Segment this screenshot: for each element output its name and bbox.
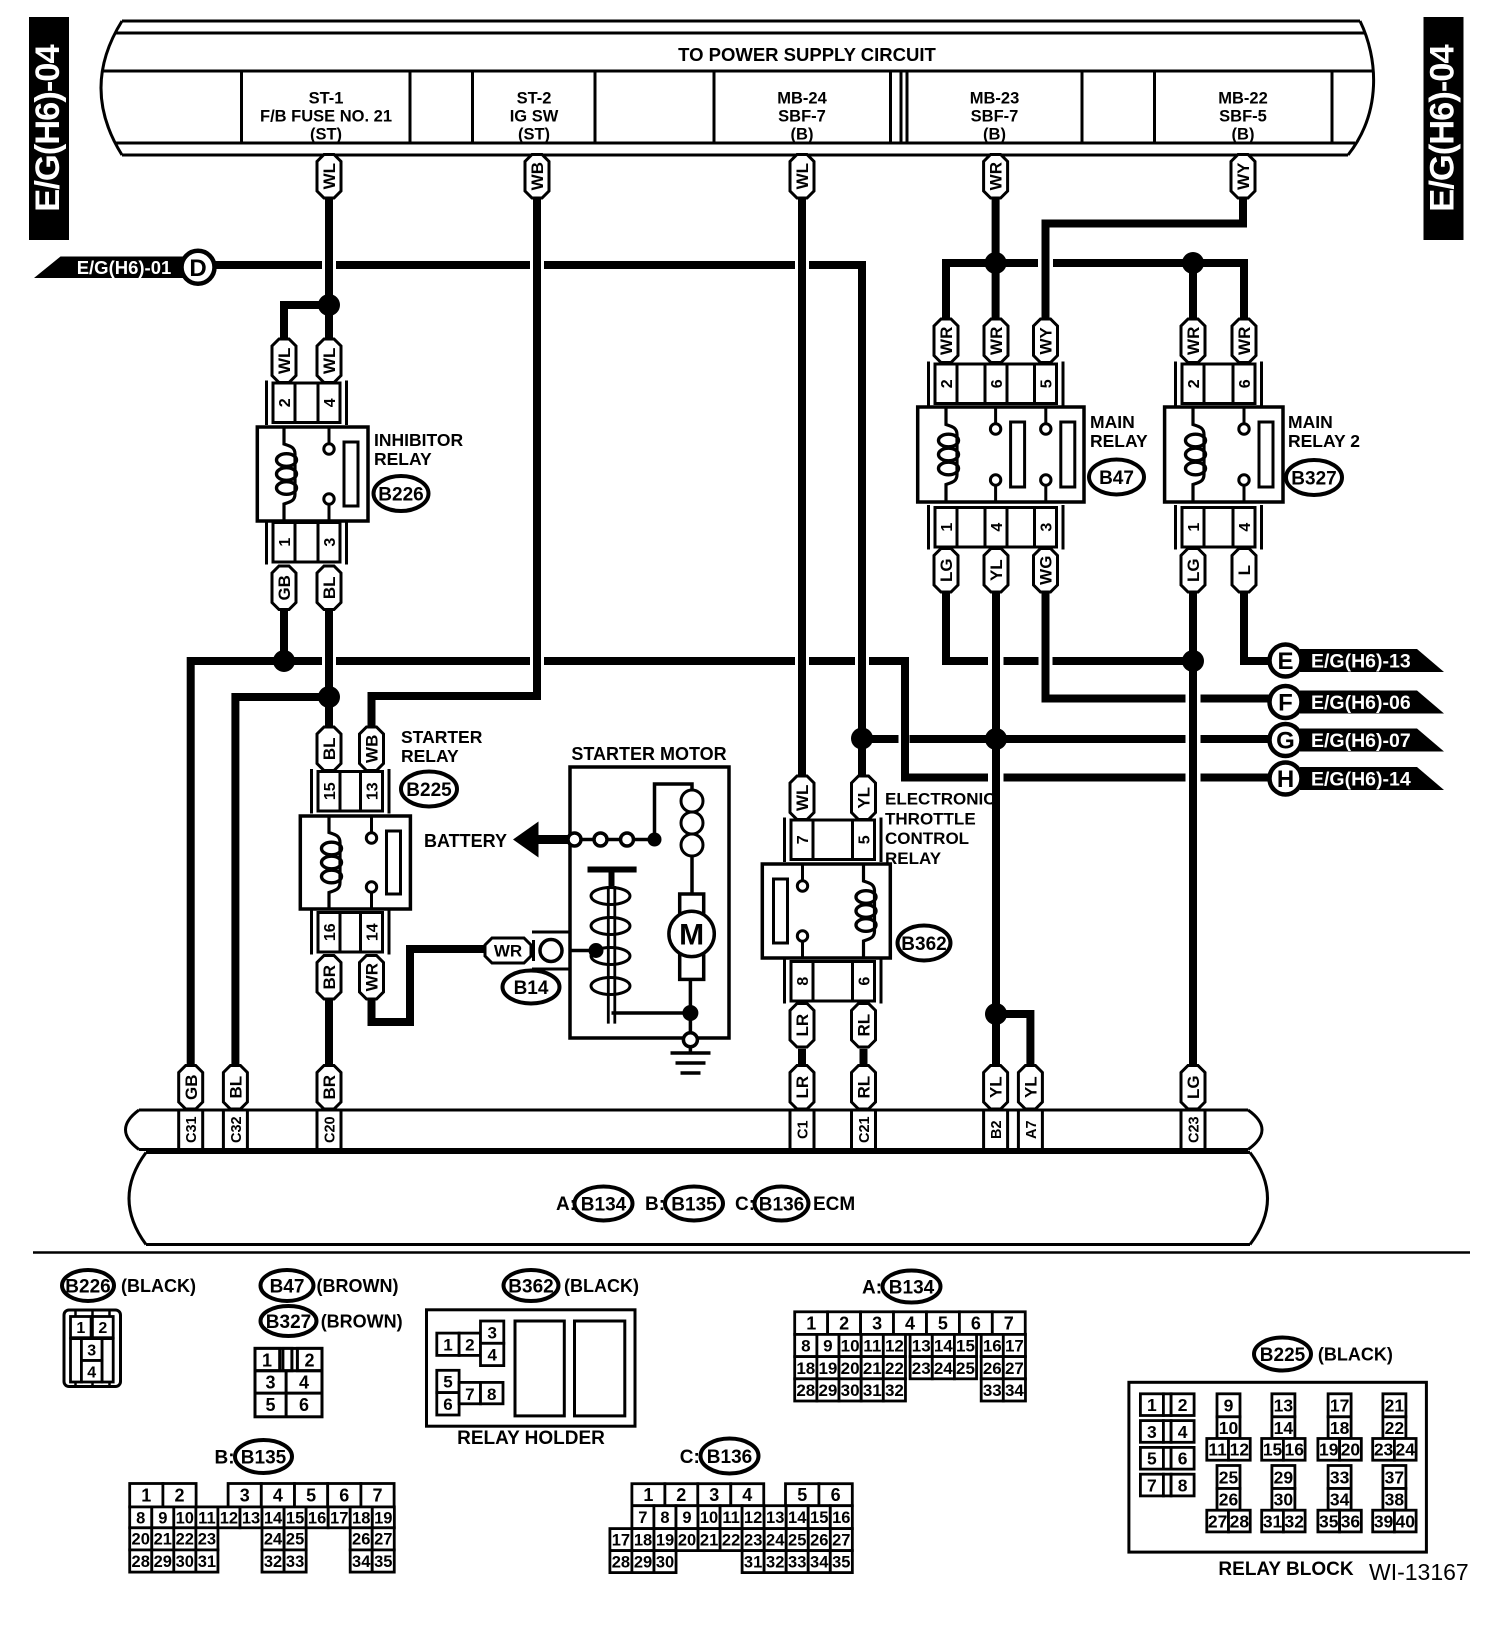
- B135 row 3 pins 20-23: [130, 1528, 218, 1550]
- svg-text:19: 19: [656, 1532, 674, 1550]
- svg-text:4: 4: [1178, 1422, 1188, 1442]
- svg-text:31: 31: [863, 1381, 882, 1400]
- svg-text:D: D: [189, 255, 206, 282]
- svg-text:MB-24: MB-24: [777, 90, 827, 108]
- wire LG net segment: [1053, 657, 1194, 665]
- svg-text:MB-22: MB-22: [1218, 90, 1268, 108]
- svg-text:SBF-7: SBF-7: [971, 108, 1019, 126]
- B134 row 2 pins 16-17: [981, 1334, 1025, 1356]
- wire YL to ETC relay pin 5: [858, 742, 866, 776]
- wire YL from main relay pin 4 to ECM B2: [992, 592, 1000, 1066]
- relay ref B225: [401, 772, 457, 807]
- svg-text:31: 31: [744, 1554, 762, 1572]
- svg-text:1: 1: [1186, 523, 1203, 532]
- B135 row 3 pins 26-27: [350, 1528, 394, 1550]
- svg-text:1: 1: [76, 1320, 85, 1337]
- svg-text:1: 1: [939, 523, 956, 532]
- svg-text:B134: B134: [581, 1194, 627, 1215]
- svg-text:WY: WY: [1037, 326, 1056, 354]
- wire label YL at ETC relay pin 5: [852, 776, 876, 820]
- connector view ref B226: [62, 1270, 114, 1301]
- svg-text:B362: B362: [508, 1276, 553, 1297]
- svg-text:C21: C21: [857, 1116, 873, 1143]
- svg-text:17: 17: [1005, 1337, 1024, 1356]
- relay ref B327: [1286, 460, 1342, 495]
- svg-text:2: 2: [98, 1320, 107, 1337]
- wire D net from flag: [215, 261, 323, 269]
- wire L from main relay 2 pin 4 to flag E: [1244, 592, 1269, 661]
- wire label BL at inhibitor pin 3: [317, 566, 341, 610]
- B225 pins 5-6: [1140, 1447, 1194, 1469]
- svg-text:B:: B:: [215, 1448, 235, 1469]
- svg-text:L: L: [1235, 565, 1254, 575]
- junction D net / G net: [851, 728, 873, 750]
- svg-text:21: 21: [1385, 1396, 1405, 1416]
- svg-text:15: 15: [810, 1509, 828, 1527]
- svg-text:31: 31: [1263, 1511, 1283, 1531]
- svg-text:(BLACK): (BLACK): [121, 1276, 196, 1296]
- svg-text:6: 6: [299, 1395, 309, 1415]
- svg-text:3: 3: [322, 538, 339, 547]
- svg-text:2: 2: [1178, 1395, 1188, 1415]
- B136 row 1 pins 5-6: [786, 1484, 853, 1506]
- svg-text:5: 5: [938, 1314, 948, 1334]
- svg-text:14: 14: [365, 923, 382, 941]
- svg-text:BL: BL: [320, 576, 339, 599]
- svg-text:17: 17: [1330, 1396, 1349, 1416]
- wire label WY at main relay pin 5: [1034, 319, 1058, 363]
- inhibitor relay B226 body: [257, 427, 368, 521]
- svg-text:20: 20: [1341, 1440, 1361, 1460]
- svg-text:BL: BL: [227, 1076, 246, 1099]
- svg-text:3: 3: [1039, 523, 1056, 532]
- svg-text:16: 16: [832, 1509, 850, 1527]
- B135 row 1 pins 1-2: [130, 1484, 196, 1507]
- svg-text:F: F: [1278, 690, 1293, 717]
- pin 2: [935, 364, 957, 404]
- svg-text:16: 16: [1285, 1440, 1305, 1460]
- ECM pin C1: [790, 1110, 814, 1150]
- svg-text:(B): (B): [983, 126, 1006, 144]
- wire D net segment: [336, 261, 530, 269]
- wire BR from starter relay pin 16 to ECM C20: [325, 999, 333, 1066]
- svg-text:18: 18: [352, 1509, 370, 1527]
- svg-text:6: 6: [339, 1486, 349, 1506]
- svg-text:16: 16: [308, 1509, 326, 1527]
- svg-text:(B): (B): [1232, 126, 1255, 144]
- svg-text:29: 29: [818, 1381, 837, 1400]
- pin 13: [361, 772, 383, 812]
- svg-text:28: 28: [1230, 1511, 1250, 1531]
- svg-text:WR: WR: [1184, 327, 1203, 355]
- svg-text:12: 12: [220, 1509, 238, 1527]
- junction WR net at MB-23 drop: [985, 252, 1007, 274]
- relay ref B226: [374, 476, 429, 511]
- svg-text:E/G(H6)-04: E/G(H6)-04: [29, 45, 67, 212]
- main relay 2 bottom pin row: [1176, 505, 1262, 550]
- wire D net segment: [544, 261, 795, 269]
- connector view ref B362: [504, 1270, 559, 1301]
- ECM pin C20: [317, 1110, 341, 1150]
- wire WL branch to inhibitor relay pin 2: [284, 305, 327, 339]
- svg-text:5: 5: [265, 1395, 275, 1415]
- svg-text:29: 29: [154, 1553, 172, 1571]
- wire label WR at starter relay pin 14: [360, 956, 384, 1000]
- svg-text:4: 4: [487, 1346, 497, 1365]
- svg-text:22: 22: [176, 1531, 194, 1549]
- svg-text:(BLACK): (BLACK): [564, 1276, 639, 1296]
- svg-text:19: 19: [1319, 1440, 1339, 1460]
- B135 row 1 pins 6-7: [328, 1484, 394, 1507]
- bus cell separators: [242, 71, 1333, 143]
- svg-text:15: 15: [286, 1509, 304, 1527]
- pin 16: [318, 913, 340, 953]
- svg-text:13: 13: [1274, 1396, 1294, 1416]
- svg-text:WL: WL: [275, 348, 294, 374]
- svg-text:6: 6: [1178, 1449, 1188, 1469]
- svg-text:B225: B225: [1260, 1345, 1306, 1366]
- svg-text:6: 6: [1237, 379, 1254, 388]
- svg-text:E/G(H6)-07: E/G(H6)-07: [1311, 730, 1411, 752]
- svg-text:40: 40: [1396, 1511, 1416, 1531]
- wire label WR at main relay 2 pin 2: [1181, 319, 1205, 363]
- svg-text:LG: LG: [1184, 558, 1203, 582]
- svg-text:B327: B327: [1291, 468, 1336, 489]
- svg-text:34: 34: [352, 1553, 371, 1571]
- svg-text:24: 24: [766, 1532, 785, 1550]
- wire label BL at ECM: [223, 1066, 247, 1110]
- svg-text:B135: B135: [241, 1447, 287, 1468]
- pin 6: [853, 962, 875, 1002]
- wire BL from inhibitor relay pin 3 to starter relay pin 15: [325, 610, 333, 727]
- ECM pin C32: [223, 1110, 247, 1150]
- svg-text:23: 23: [198, 1531, 216, 1549]
- connector B14 symbol: [532, 932, 570, 969]
- junction GB net: [273, 650, 295, 672]
- svg-text:33: 33: [983, 1381, 1002, 1400]
- junction WL net: [318, 294, 340, 316]
- wire to solenoid coil: [655, 784, 693, 840]
- pin 6: [1233, 364, 1255, 404]
- wire label LG at main relay 2 pin 1: [1181, 549, 1205, 593]
- svg-text:32: 32: [766, 1554, 784, 1572]
- wire label LG at ECM: [1181, 1066, 1205, 1110]
- svg-text:9: 9: [1224, 1396, 1234, 1416]
- B225 pins 13-16: [1262, 1394, 1305, 1460]
- svg-text:3: 3: [87, 1343, 96, 1360]
- wire label WB at ST-2: [525, 155, 549, 199]
- ECM ref B136: [755, 1187, 809, 1221]
- svg-text:GB: GB: [275, 575, 294, 601]
- svg-text:4: 4: [1237, 523, 1254, 532]
- svg-text:27: 27: [374, 1531, 392, 1549]
- svg-text:4: 4: [273, 1486, 283, 1506]
- svg-text:7: 7: [638, 1509, 647, 1527]
- wire LG from main relay 2 pin 1 to ECM C23: [1189, 592, 1197, 1066]
- B225 pins 9-12: [1207, 1394, 1250, 1460]
- wire WR branch to main relay 2 pin 2: [1189, 263, 1197, 319]
- svg-text:WR: WR: [937, 327, 956, 355]
- svg-text:C32: C32: [229, 1116, 245, 1143]
- svg-text:RL: RL: [855, 1014, 874, 1037]
- pin 1: [935, 508, 957, 548]
- svg-text:B226: B226: [65, 1276, 110, 1297]
- svg-text:4: 4: [322, 398, 339, 407]
- wire label WR at main relay pin 2: [934, 319, 958, 363]
- wire WB from ST-2 to starter relay pin 13: [372, 198, 538, 727]
- svg-text:30: 30: [1274, 1490, 1294, 1510]
- svg-text:4: 4: [905, 1314, 915, 1334]
- connector view ref B47: [261, 1270, 314, 1301]
- svg-text:M: M: [679, 918, 704, 951]
- svg-text:25: 25: [956, 1359, 975, 1378]
- wire GB net to flag H: [1201, 774, 1270, 782]
- svg-text:2: 2: [465, 1336, 474, 1355]
- starter relay B225 body: [300, 816, 410, 909]
- svg-text:WY: WY: [1234, 162, 1253, 190]
- svg-text:26: 26: [1219, 1490, 1239, 1510]
- wire label LG at main relay pin 1: [934, 549, 958, 593]
- svg-text:32: 32: [885, 1381, 904, 1400]
- svg-text:7: 7: [1147, 1475, 1157, 1495]
- svg-text:WB: WB: [363, 735, 382, 763]
- svg-text:ECM: ECM: [813, 1194, 855, 1215]
- relay ref B47: [1089, 460, 1144, 495]
- svg-text:2: 2: [277, 398, 294, 407]
- ECM pin A7: [1018, 1110, 1042, 1150]
- svg-text:WL: WL: [793, 163, 812, 189]
- wire GB net jog to E/G(H6)-14 row: [869, 661, 988, 778]
- ECM pin header band: [126, 1110, 1263, 1150]
- wire label WL at MB-24: [790, 155, 814, 199]
- svg-text:5: 5: [1039, 379, 1056, 388]
- B134 row 3 pins 18-22: [795, 1357, 906, 1379]
- svg-text:YL: YL: [987, 559, 1006, 581]
- svg-text:YL: YL: [1022, 1076, 1041, 1098]
- connector flag E/G(H6)-06: [1270, 686, 1445, 718]
- svg-text:E: E: [1277, 648, 1293, 675]
- svg-text:28: 28: [796, 1381, 815, 1400]
- svg-text:E/G(H6)-04: E/G(H6)-04: [1424, 45, 1462, 212]
- pin 14: [361, 913, 383, 953]
- wire label BR at starter relay pin 16: [317, 956, 341, 1000]
- svg-text:1: 1: [806, 1314, 816, 1334]
- svg-text:9: 9: [158, 1509, 167, 1527]
- svg-text:24: 24: [264, 1531, 283, 1549]
- pin 3: [1035, 508, 1057, 548]
- wire label GB at ECM: [179, 1066, 203, 1110]
- pin 7: [791, 820, 813, 860]
- svg-text:WR: WR: [363, 963, 382, 991]
- svg-text:YL: YL: [855, 787, 874, 809]
- svg-text:C:: C:: [680, 1447, 700, 1468]
- svg-text:24: 24: [1396, 1440, 1416, 1460]
- svg-text:30: 30: [656, 1554, 674, 1572]
- svg-text:14: 14: [1274, 1418, 1294, 1438]
- inhibitor relay bottom pin row: [267, 520, 347, 565]
- svg-text:10: 10: [700, 1509, 718, 1527]
- ground terminal circle: [683, 1013, 697, 1047]
- svg-text:BATTERY: BATTERY: [424, 831, 507, 851]
- svg-text:E/G(H6)-06: E/G(H6)-06: [1311, 692, 1411, 714]
- svg-text:E/G(H6)-14: E/G(H6)-14: [1311, 769, 1411, 791]
- pin 3: [318, 523, 340, 563]
- bus cell MB-23 SBF-7 (B): [970, 90, 1020, 144]
- svg-text:B135: B135: [671, 1194, 717, 1215]
- svg-text:8: 8: [801, 1337, 810, 1356]
- junction motor return: [682, 1005, 698, 1021]
- B136 row 4 pins 31-35: [742, 1551, 852, 1573]
- svg-text:B362: B362: [901, 934, 946, 955]
- svg-text:1: 1: [1147, 1395, 1157, 1415]
- svg-text:39: 39: [1374, 1511, 1394, 1531]
- svg-text:SBF-7: SBF-7: [778, 108, 826, 126]
- svg-text:9: 9: [682, 1509, 691, 1527]
- pin 15: [318, 772, 340, 812]
- B134 row 3 pins 26-27: [981, 1357, 1025, 1379]
- svg-text:14: 14: [788, 1509, 807, 1527]
- svg-text:5: 5: [797, 1485, 807, 1505]
- svg-text:30: 30: [841, 1381, 860, 1400]
- svg-text:13: 13: [766, 1509, 784, 1527]
- svg-text:B14: B14: [514, 978, 549, 999]
- wire WL from ST-1 to inhibitor relay pin 4: [325, 198, 333, 339]
- B135 row 4 pins 32-33: [262, 1550, 306, 1572]
- wire B14 into starter motor: [570, 949, 590, 953]
- svg-text:34: 34: [810, 1554, 829, 1572]
- svg-text:4: 4: [299, 1373, 309, 1393]
- svg-text:7: 7: [372, 1486, 382, 1506]
- svg-text:15: 15: [956, 1337, 975, 1356]
- svg-text:31: 31: [198, 1553, 216, 1571]
- wire label WR at B14: [485, 938, 531, 963]
- main relay 2 top pin row: [1176, 362, 1262, 407]
- junction YL net / G net: [985, 728, 1007, 750]
- svg-text:1: 1: [643, 1485, 653, 1505]
- svg-text:2: 2: [174, 1486, 184, 1506]
- svg-text:6: 6: [443, 1395, 452, 1414]
- svg-text:B47: B47: [1099, 468, 1134, 489]
- wire GB net segment: [336, 657, 530, 665]
- battery contact terminals: [568, 833, 650, 846]
- wire label RL at ETC relay pin 6: [852, 1004, 876, 1048]
- wire RL from ETC relay pin 6 to ECM C21: [860, 1049, 868, 1066]
- svg-text:33: 33: [788, 1554, 806, 1572]
- svg-text:B136: B136: [707, 1447, 752, 1468]
- wire label LR at ECM: [790, 1066, 814, 1110]
- ground: [671, 1047, 711, 1073]
- starter motor M: [669, 894, 714, 979]
- B134 row 2 pins 13-15: [910, 1334, 976, 1356]
- plunger T bar: [588, 870, 637, 887]
- svg-text:B136: B136: [759, 1194, 804, 1215]
- svg-text:MB-23: MB-23: [970, 90, 1020, 108]
- wire label WR at MB-23: [984, 155, 1008, 199]
- svg-text:(BROWN): (BROWN): [317, 1276, 399, 1296]
- svg-text:4: 4: [742, 1485, 752, 1505]
- ETC relay B362 body: [762, 864, 890, 958]
- svg-text:21: 21: [154, 1531, 172, 1549]
- wire GB net segment: [809, 657, 855, 665]
- bus cell ST-2 IG SW (ST): [510, 90, 559, 144]
- wire label YL at ECM: [984, 1066, 1008, 1110]
- svg-text:5: 5: [1147, 1449, 1157, 1469]
- junction YL net at ECM: [985, 1003, 1007, 1025]
- ETC relay top pin row: [785, 818, 882, 863]
- svg-text:1: 1: [141, 1486, 151, 1506]
- wire label WR at main relay pin 6: [984, 319, 1008, 363]
- plunger return spring: [591, 888, 630, 995]
- ETC relay bottom pin row: [785, 959, 882, 1004]
- wire label YL at ECM: [1018, 1066, 1042, 1110]
- connector view B226: [64, 1310, 121, 1387]
- svg-text:8: 8: [487, 1385, 496, 1404]
- B225 pins 3-4: [1140, 1421, 1194, 1443]
- wire D net to ETC relay coil: [809, 265, 862, 734]
- svg-text:2: 2: [304, 1351, 314, 1371]
- wire GB from inhibitor relay pin 1: [280, 610, 288, 661]
- wire GB net segment: [1004, 774, 1186, 782]
- svg-text:6: 6: [989, 379, 1006, 388]
- svg-text:17: 17: [612, 1532, 630, 1550]
- svg-text:15: 15: [1263, 1440, 1283, 1460]
- svg-text:29: 29: [634, 1554, 652, 1572]
- svg-text:12: 12: [1230, 1440, 1250, 1460]
- svg-text:WR: WR: [494, 942, 522, 961]
- pin 5: [1035, 364, 1057, 404]
- svg-text:TO POWER SUPPLY CIRCUIT: TO POWER SUPPLY CIRCUIT: [678, 44, 936, 65]
- svg-text:3: 3: [240, 1486, 250, 1506]
- svg-text:24: 24: [934, 1359, 953, 1378]
- wire LG net segment: [1004, 657, 1039, 665]
- svg-text:25: 25: [788, 1532, 806, 1550]
- svg-text:WG: WG: [1037, 556, 1056, 585]
- bus cell MB-22 SBF-5 (B): [1218, 90, 1268, 144]
- svg-text:BR: BR: [320, 1075, 339, 1100]
- svg-text:22: 22: [1385, 1418, 1405, 1438]
- B135 row 4 pins 34-35: [350, 1550, 394, 1572]
- svg-text:3: 3: [709, 1485, 719, 1505]
- svg-text:22: 22: [722, 1532, 740, 1550]
- svg-text:19: 19: [374, 1509, 392, 1527]
- page tab E/G(H6)-04 left: [29, 17, 69, 240]
- wire label WL at ETC relay pin 7: [790, 776, 814, 820]
- svg-text:36: 36: [1341, 1511, 1361, 1531]
- wire coil to motor: [690, 856, 694, 894]
- svg-text:7: 7: [1004, 1314, 1014, 1334]
- wire label BR at ECM: [317, 1066, 341, 1110]
- connector flag E/G(H6)-01 D: [34, 251, 215, 284]
- svg-text:11: 11: [198, 1509, 215, 1527]
- svg-text:20: 20: [678, 1532, 696, 1550]
- svg-text:C23: C23: [1187, 1116, 1203, 1143]
- B134 row 2 pins 8-12: [795, 1334, 906, 1356]
- B136 row 2 pins 7-16: [632, 1506, 852, 1529]
- wire WR from starter relay pin 14 to starter motor B14: [372, 949, 486, 1022]
- starter relay top pin row: [312, 769, 390, 814]
- svg-text:C31: C31: [184, 1116, 200, 1143]
- connector flag E/G(H6)-14: [1270, 763, 1445, 795]
- connector view ref B135: [235, 1440, 292, 1473]
- wire label LR at ETC relay pin 8: [790, 1004, 814, 1048]
- svg-text:8: 8: [795, 977, 812, 986]
- B134 row 4 pins 33-34: [981, 1379, 1025, 1401]
- svg-text:H: H: [1277, 766, 1294, 793]
- starter motor box: [570, 767, 729, 1038]
- pin 6: [985, 364, 1007, 404]
- B136 row 4 pins 28-30: [610, 1551, 676, 1573]
- svg-text:27: 27: [1208, 1511, 1227, 1531]
